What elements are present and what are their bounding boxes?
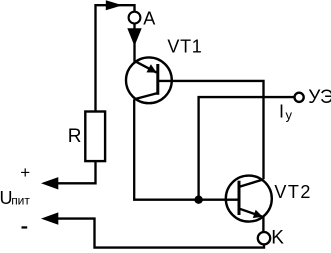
wire from resistor R top to node A bbox=[96, 5, 135, 111]
arrow negative supply terminal bbox=[41, 212, 58, 224]
label minus bbox=[22, 226, 28, 228]
wire VT1 base to VT2 collector bbox=[158, 81, 264, 179]
wire resistor R bottom to positive supply terminal bbox=[58, 161, 96, 183]
node УЭ bbox=[295, 93, 304, 102]
svg-text:+: + bbox=[20, 163, 30, 182]
arrow on wire into VT1 emitter bbox=[127, 28, 141, 46]
wire node K to negative supply terminal bbox=[58, 219, 264, 248]
wire node A to VT1 emitter bbox=[133, 24, 135, 63]
arrow positive supply terminal bbox=[41, 177, 58, 189]
wire junction to gate terminal УЭ bbox=[199, 97, 295, 200]
transistor VT2 (NPN) bbox=[226, 176, 272, 222]
svg-text:VT1: VT1 bbox=[167, 36, 202, 56]
node A bbox=[129, 12, 141, 24]
svg-text:УЭ: УЭ bbox=[308, 87, 331, 108]
node K bbox=[258, 232, 270, 244]
transistor VT1 (PNP) bbox=[126, 57, 172, 103]
svg-text:R: R bbox=[68, 126, 82, 147]
svg-text:VT2: VT2 bbox=[274, 182, 312, 202]
arrow current direction on anode wire bbox=[106, 0, 123, 10]
svg-text:A: A bbox=[143, 9, 155, 29]
wire VT2 emitter to node K bbox=[262, 217, 264, 233]
junction VT1 collector / VT2 base / gate bbox=[194, 196, 202, 204]
resistor R bbox=[85, 112, 105, 162]
svg-text:K: K bbox=[271, 227, 284, 248]
wire VT1 collector down to junction bbox=[134, 99, 238, 200]
